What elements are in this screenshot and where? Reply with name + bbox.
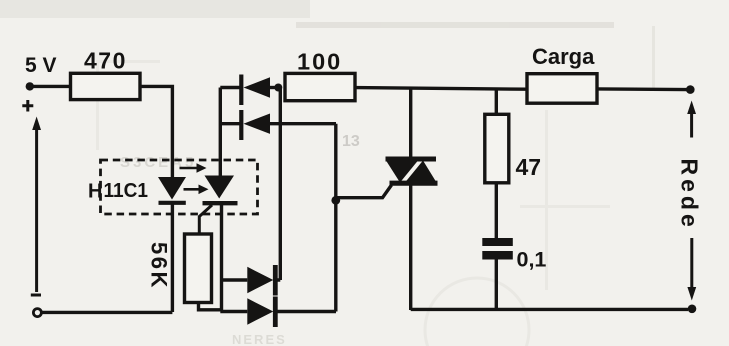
resistor R1 470 — [71, 73, 141, 99]
node mains bottom terminal — [688, 305, 697, 314]
resistor R4 47 — [485, 114, 509, 183]
wire SCR cathode down — [220, 203, 223, 311]
diode D2 wire — [220, 122, 239, 125]
diode D4 cathode bar — [273, 297, 278, 328]
svg-text:NERES: NERES — [232, 332, 287, 346]
svg-text:13: 13 — [342, 133, 360, 150]
LED U1 anode-triangle — [158, 177, 186, 200]
wire SCR gate to R2 — [199, 205, 212, 235]
wire D2 anode to AC right line — [270, 122, 336, 125]
svg-text:56K: 56K — [147, 242, 172, 290]
svg-text:Rede: Rede — [677, 159, 703, 231]
svg-text:5 V: 5 V — [25, 54, 57, 77]
diode D1 cathode bar — [239, 75, 243, 106]
triac Q1 top bar — [386, 157, 437, 162]
svg-text:100: 100 — [297, 49, 342, 75]
diode D1 wire — [220, 86, 239, 89]
wire LED cathode down — [171, 203, 174, 312]
wire bridge AC right vertical — [334, 124, 337, 312]
optocoupler U1 H11C1 dashed outline — [101, 160, 258, 214]
svg-text:47: 47 — [516, 154, 542, 180]
label 0,1 — [517, 248, 547, 272]
DC input polarity arrow — [32, 117, 41, 293]
label 56K — [147, 242, 172, 290]
svg-text:11C1: 11C1 — [104, 180, 149, 202]
triac Q1 bottom bar — [390, 181, 438, 186]
diode D2 — [244, 114, 271, 134]
wire C1 to bottom rail — [495, 260, 498, 310]
wire D3 cathode up to node — [275, 88, 280, 281]
label 470 — [84, 47, 127, 73]
wire 5V node to R1 — [33, 85, 71, 88]
wire bottom rail right — [411, 308, 688, 311]
light arrow upper — [180, 163, 207, 173]
diode D3 cathode bar — [273, 265, 278, 296]
wire D3 anode — [222, 278, 248, 281]
resistor R5 Carga load — [527, 74, 597, 104]
label 100 — [297, 49, 342, 75]
node bridge AC left — [274, 84, 282, 92]
capacitor C1 plate top — [482, 238, 513, 246]
wire D4 cathode to AC right line — [275, 310, 336, 313]
label 47 — [516, 154, 542, 180]
wire top rail R3 to Carga — [355, 88, 527, 90]
triac Q1 right triangle — [405, 161, 437, 183]
minus polarity mark — [31, 294, 41, 297]
wire triac gate — [336, 185, 392, 198]
diode D2 cathode bar — [239, 110, 243, 140]
node triac gate — [331, 196, 340, 205]
resistor R3 100 — [285, 73, 355, 100]
capacitor C1 plate bottom — [482, 251, 513, 260]
label H11C1 — [88, 180, 148, 203]
wire R1 to LED anode — [140, 86, 172, 177]
wire R4 top stub — [495, 89, 498, 115]
photo-SCR U1 triangle — [205, 176, 235, 199]
diode D4 — [247, 298, 273, 324]
wire R4 to C1 — [495, 183, 498, 238]
node 5V positive terminal — [26, 82, 34, 90]
svg-text:0,1: 0,1 — [517, 248, 547, 272]
diode D1 — [244, 77, 271, 97]
plus polarity mark — [22, 100, 33, 112]
label Rede — [677, 159, 703, 231]
diode D3 — [247, 267, 273, 293]
wire triac MT2 — [409, 88, 412, 158]
svg-text:Carga: Carga — [532, 44, 595, 69]
wire Carga to mains top — [597, 87, 687, 91]
mains arrow up — [687, 101, 696, 138]
wire D1 anode to node — [270, 86, 277, 89]
triac Q1 left triangle — [386, 161, 418, 183]
terminal minus open circle — [33, 309, 41, 317]
LED U1 cathode bar — [159, 201, 186, 205]
wire bridge bottom to D4 — [220, 310, 247, 313]
wire triac MT1 down — [409, 184, 412, 311]
photo-SCR U1 cathode bar — [203, 201, 238, 205]
wire bridge left vertical top (SCR anode) — [219, 88, 222, 177]
mains arrow down — [687, 238, 696, 301]
wire bottom rail left — [42, 311, 173, 314]
resistor R2 56K — [185, 234, 212, 303]
svg-text:H: H — [88, 180, 102, 202]
light arrow lower — [184, 185, 209, 195]
label 5V — [25, 54, 57, 77]
svg-text:470: 470 — [84, 47, 127, 73]
node mains top terminal — [686, 85, 695, 94]
wire R2 bottom to bridge bottom — [199, 303, 221, 310]
label Carga — [532, 44, 595, 69]
